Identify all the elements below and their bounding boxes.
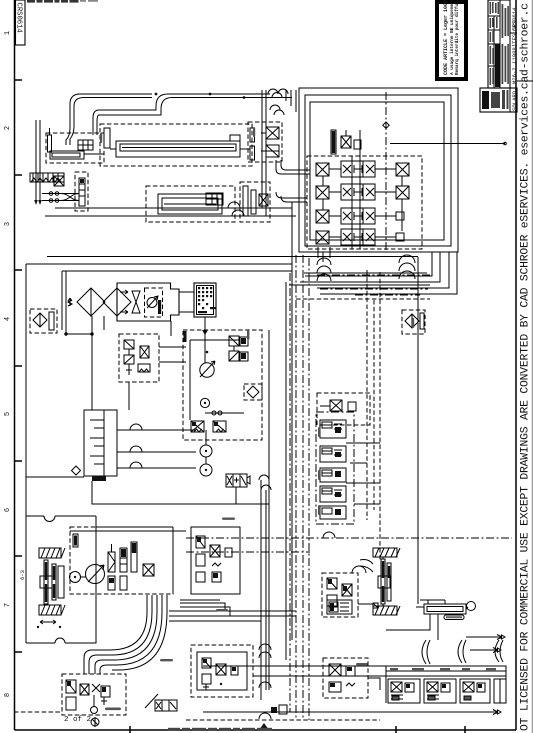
- cooler fan blades: [132, 291, 140, 313]
- code article black box: [437, 0, 466, 79]
- cylinder A body: [50, 151, 104, 159]
- cluster tag: [184, 331, 187, 342]
- test point connectors: [34, 200, 42, 205]
- station D1 dashed enclosure: [240, 182, 270, 222]
- bank internal verticals: [323, 130, 402, 249]
- frame border right: [515, 0, 517, 730]
- cartridge outlet lines: [346, 443, 380, 504]
- valve row 2: [316, 184, 409, 200]
- feed line down right cluster: [358, 604, 380, 690]
- cylinder B port block: [104, 128, 240, 148]
- radiator outlet line: [204, 317, 206, 345]
- accumulator diamond station: [244, 384, 262, 400]
- tank return bridges: [130, 424, 142, 468]
- system box inner: [62, 271, 292, 330]
- steering feed wires: [386, 614, 438, 640]
- cluster couplers: [205, 411, 244, 415]
- axle arrows bottom: [37, 620, 61, 628]
- wires manifold to left: [203, 666, 386, 676]
- manifold side ticks: [386, 666, 506, 703]
- svg-text:1: 1: [4, 31, 12, 35]
- right axle fills: [382, 561, 390, 602]
- wire top bundle upper: [99, 94, 292, 115]
- svg-text:2: 2: [4, 126, 12, 130]
- tank breather diamond: [72, 466, 81, 475]
- terminal strip block: [30, 173, 64, 182]
- radiator grid: [194, 283, 216, 317]
- bottom long wire: [203, 710, 501, 715]
- svg-text:CRS0614: CRS0614: [15, 3, 23, 33]
- nested corner links: [180, 600, 230, 616]
- bus dashdot verticals: [290, 255, 309, 720]
- reducer links: [129, 347, 186, 410]
- crossing dashdot horizontal: [186, 538, 512, 552]
- frame border left: [14, 0, 16, 730]
- hose arcs right bank: [399, 255, 415, 279]
- filter bypass marks: [68, 298, 72, 306]
- brake solenoid valve: [226, 474, 250, 504]
- cluster bottom fills: [192, 422, 218, 426]
- right axle hose: [360, 560, 373, 573]
- pump cluster valves: [229, 336, 248, 361]
- outrigger end plate: [494, 679, 506, 703]
- coupler line 1: [42, 192, 79, 201]
- tank T1: [84, 410, 117, 476]
- valve bank inner dashed: [307, 156, 422, 249]
- bridge arcs bottom bus: [259, 644, 271, 719]
- wire verticals into bank: [286, 90, 296, 112]
- main pump cluster dashed frame: [183, 330, 262, 440]
- cooler-radiator links: [171, 292, 194, 336]
- bus dashed top: [296, 298, 430, 300]
- long center verticals: [261, 480, 266, 700]
- registration triangle bottom: [259, 723, 269, 730]
- park brake fills: [67, 681, 106, 692]
- svg-text:CRS0614: CRS0614: [511, 7, 518, 31]
- zone ticks left: [14, 80, 22, 652]
- cartridge stack dashed: [316, 412, 354, 524]
- valve row 1: [316, 161, 409, 177]
- steering top links: [383, 590, 445, 606]
- right brake lower valve: [327, 600, 352, 614]
- cartridge block 5: [320, 506, 346, 519]
- outrigger section 3: [460, 679, 490, 703]
- pilot cluster center bottom: [191, 645, 253, 697]
- bridge arc on dashdot: [323, 532, 335, 538]
- brake cluster dome: [352, 566, 366, 573]
- lever valve: [145, 694, 177, 711]
- cylinder C body: [158, 194, 222, 214]
- pressure filter station: [402, 310, 425, 334]
- cylinder A pilot valve: [78, 140, 93, 150]
- drawing number label box top-left: [15, 0, 26, 45]
- bottom dashed rail: [14, 712, 380, 720]
- valve bank nested rect R1: [299, 88, 458, 252]
- bank inlet relief group: [331, 130, 361, 154]
- traction pump main: [86, 565, 105, 584]
- aux valve station mid: [317, 393, 370, 425]
- wire mid horizontals: [45, 208, 296, 216]
- bank drop bundle left: [318, 247, 330, 262]
- checkbox mark: [373, 603, 378, 608]
- tank outlet line: [26, 477, 269, 504]
- valve row 4: [316, 229, 404, 245]
- valve bank nested rect R2: [305, 95, 451, 246]
- hose arc r2: [458, 640, 466, 663]
- five hose S-bundle: [84, 595, 167, 674]
- right brake block: [322, 573, 358, 617]
- pump cluster inner lines: [190, 340, 240, 420]
- cylinder B dashed enclosure: [100, 124, 252, 166]
- frame border bottom: [15, 729, 517, 731]
- bank right drop wires: [300, 252, 457, 294]
- wheel group box: [26, 516, 96, 643]
- valve row 3: [316, 208, 404, 224]
- axle label: [19, 570, 26, 580]
- steering cylinder: [416, 602, 476, 615]
- station C1 valve lower: [261, 145, 279, 157]
- right axle stack: [378, 557, 391, 606]
- suction line vertical: [92, 316, 104, 410]
- station C1 cartridges: [250, 128, 255, 160]
- cooler loop wires: [65, 271, 93, 335]
- traction cartridges 3: [131, 542, 154, 576]
- left return filter station: [30, 309, 57, 333]
- cooler bold box: [117, 283, 179, 321]
- cylinder A cartridge: [48, 128, 52, 152]
- svg-text:5: 5: [4, 412, 12, 416]
- label pills: [100, 127, 414, 710]
- bank pilot diamond: [383, 122, 389, 128]
- bank inlet relief hatch: [332, 131, 335, 153]
- bank pilot dashdot vertical: [385, 92, 387, 252]
- fine print bottom: [168, 728, 272, 730]
- outrigger section 2: [424, 679, 456, 703]
- pump cluster small marks: [206, 338, 246, 359]
- wire branch left S-curve: [66, 94, 152, 145]
- manifold strip A3: [75, 172, 88, 211]
- bridge arcs center: [259, 475, 271, 490]
- compass circle: [91, 717, 99, 727]
- cylinder C dashed enclosure: [146, 186, 235, 222]
- park brake contents: [66, 680, 110, 714]
- svg-text:CODE ARTICLE = Leger 1000: CODE ARTICLE = Leger 1000: [443, 0, 449, 75]
- traction cartridges 2: [120, 548, 127, 590]
- wire drop left pair: [93, 110, 99, 135]
- hose arc r3: [495, 640, 503, 662]
- steering cylinder label: [444, 615, 464, 620]
- hose arc r1: [422, 640, 430, 664]
- station C1 valve upper: [261, 127, 279, 139]
- filter diamond F2: [103, 288, 131, 316]
- traction cartridges 1: [108, 544, 115, 590]
- park brake cluster: [62, 674, 126, 715]
- wheel W1 bottom: [39, 605, 65, 615]
- steer valve cluster right: [323, 658, 368, 698]
- transfer lines right: [169, 611, 296, 621]
- cylinder B barrel: [110, 141, 240, 157]
- cooler hatch bar: [158, 300, 161, 314]
- cooler motor: [147, 296, 158, 308]
- svg-text:2 of 2: 2 of 2: [64, 716, 91, 724]
- title block: [480, 0, 533, 112]
- pilot cluster inner frame: [197, 652, 247, 690]
- variable pump P1: [200, 328, 215, 377]
- svg-text:3: 3: [4, 222, 12, 226]
- traction pump station dashed: [70, 527, 173, 594]
- system box outer top: [26, 257, 418, 644]
- license text right margin: [520, 3, 532, 731]
- bus solid verticals: [269, 202, 292, 690]
- pilot cluster contents: [202, 658, 238, 690]
- right brake fills: [328, 579, 347, 591]
- coupler arrows right: [466, 635, 505, 653]
- svg-text:6-3: 6-3: [19, 570, 26, 580]
- wheel W1 top: [39, 548, 65, 558]
- cartridge block 1: [320, 420, 346, 438]
- traction fills: [109, 543, 136, 583]
- right dashed verticals: [367, 270, 380, 560]
- zone numbers: [4, 31, 12, 697]
- cooler arrows: [120, 290, 128, 314]
- manifold labels: [390, 668, 496, 670]
- axle motor stack left: [40, 560, 64, 604]
- cluster bottom valves: [191, 421, 226, 432]
- pump P2: [200, 398, 209, 407]
- zone ticks bottom: [130, 726, 465, 733]
- svg-text:7: 7: [4, 603, 12, 607]
- axle motor fills: [45, 562, 55, 602]
- svg-text:OT LICENSED FOR COMMERCIAL USE: OT LICENSED FOR COMMERCIAL USE EXCEPT DR…: [520, 3, 532, 731]
- brake valve contents: [196, 536, 232, 582]
- pump label tag: [73, 534, 78, 547]
- reducer cluster contents: [124, 340, 150, 375]
- cylinder B rod line: [240, 148, 250, 150]
- svg-text:6: 6: [4, 508, 12, 512]
- page label 2of2: [64, 716, 91, 724]
- cartridge block 4: [320, 486, 346, 502]
- valve block A2: [54, 176, 64, 186]
- tank return wires: [117, 430, 196, 468]
- valve bank nested rect R3: [310, 102, 444, 240]
- cartridge block 3: [320, 468, 346, 482]
- wire junction dots: [155, 93, 246, 99]
- station D1 towers: [243, 186, 268, 216]
- page edge sliver: [531, 0, 533, 733]
- tank bottom strainer: [92, 476, 106, 481]
- coupler line 2: [42, 194, 79, 203]
- test point wires: [36, 120, 40, 200]
- motor dashed box: [145, 288, 163, 317]
- brake valve fills: [197, 537, 218, 578]
- svg-text:8: 8: [4, 693, 12, 697]
- fine print top: [27, 0, 98, 3]
- cartridge block 2: [320, 446, 346, 462]
- hose arcs left bank: [317, 258, 331, 281]
- dashdot horizontals right: [317, 275, 430, 295]
- pilot cluster fills: [203, 659, 236, 671]
- wire drop verticals center: [262, 90, 266, 216]
- right axle wheel bottom: [373, 606, 400, 615]
- small comp b1: [271, 705, 287, 714]
- svg-text:4: 4: [4, 317, 12, 321]
- wire bundle bridges top: [268, 89, 288, 115]
- reducer cluster dashed: [119, 334, 159, 382]
- right axle wheel top: [373, 548, 400, 557]
- cylinder C valve: [206, 193, 223, 205]
- brake valve station frame: [191, 527, 240, 594]
- right solid vertical: [417, 257, 419, 604]
- center motor circles: [200, 430, 212, 476]
- cylinder A dashed enclosure: [46, 133, 104, 163]
- svg-text:Remarq interdite pour diffusio: Remarq interdite pour diffusion: [455, 0, 460, 75]
- station top rails: [70, 527, 186, 594]
- filter diamond F1: [77, 288, 105, 316]
- wire corner arcs mid right: [276, 160, 310, 202]
- station C1 dashed enclosure: [248, 122, 282, 162]
- bus box top lines: [289, 273, 430, 285]
- charge pump: [70, 572, 87, 583]
- outrigger section 1: [388, 679, 420, 703]
- wire bridge arcs mid: [228, 202, 244, 216]
- bank long pilot wire: [390, 142, 506, 145]
- outrigger manifold top bar: [386, 666, 506, 676]
